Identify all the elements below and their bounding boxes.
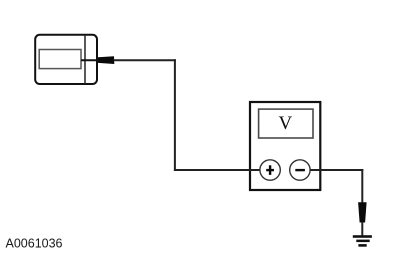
connector terminal lead (81, 59, 99, 61)
wire: plug to top corner (114, 59, 176, 61)
connector C1 body (35, 35, 97, 84)
terminal + circle (260, 160, 280, 180)
connector C1 cavity (39, 50, 81, 69)
terminal - circle (290, 160, 310, 180)
wire: lug to ground (361, 222, 363, 236)
wire: ground vertical (361, 169, 363, 204)
terminal - sign (295, 169, 305, 171)
plug boot (98, 56, 114, 64)
wire: vertical drop (174, 59, 176, 171)
connector C1 divider (84, 35, 86, 84)
svg-text:V: V (279, 113, 293, 134)
ground symbol bar 1 (353, 235, 372, 238)
terminal + sign (266, 169, 274, 171)
voltmeter U1 body (250, 102, 320, 190)
wire: minus terminal to right edge (310, 169, 321, 171)
ring terminal lug (358, 202, 367, 222)
voltmeter display (259, 109, 313, 138)
ground symbol bar 2 (356, 240, 369, 243)
ground symbol bar 3 (358, 244, 366, 247)
wire: bottom run to voltmeter (174, 169, 261, 171)
wire: voltmeter to ground drop (320, 169, 363, 171)
svg-text:A0061036: A0061036 (6, 237, 63, 251)
